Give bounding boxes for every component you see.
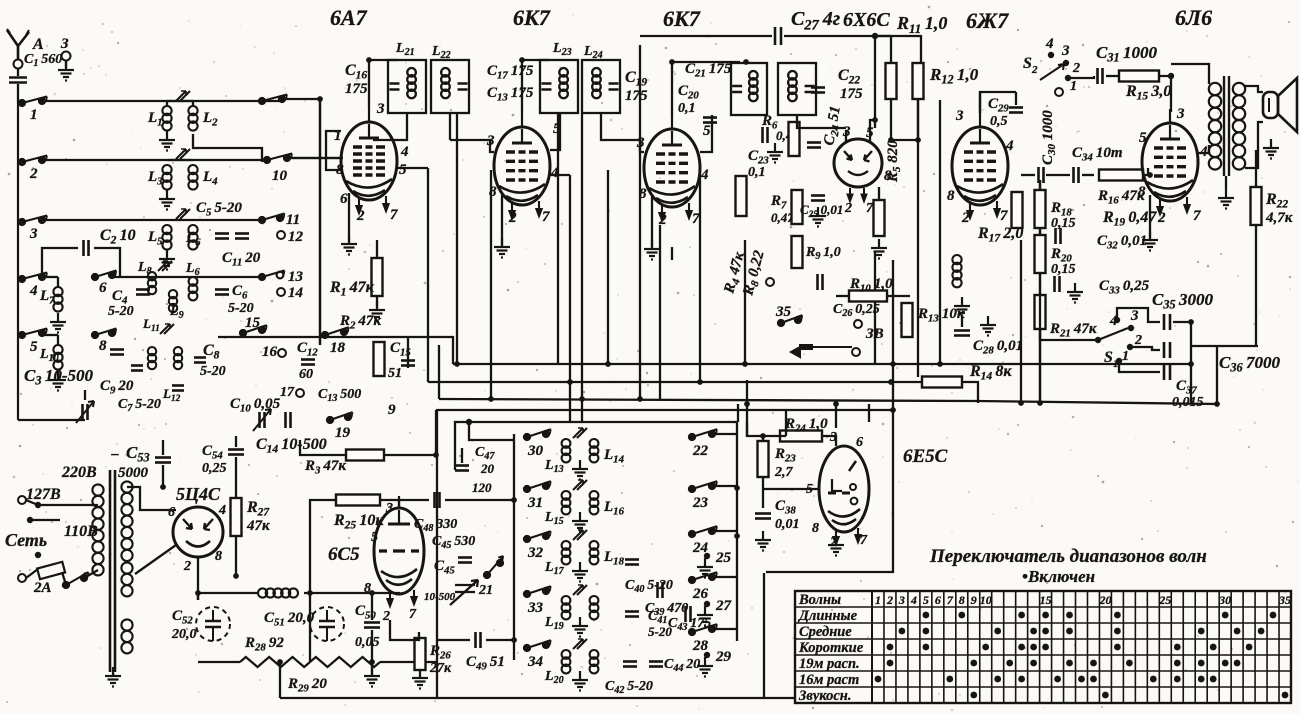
svg-text:8: 8	[489, 184, 497, 200]
wire V8 cathode	[390, 620, 419, 640]
svg-text:R3 47к: R3 47к	[304, 458, 346, 476]
wire IFT1 primary top	[369, 59, 398, 61]
svg-text:13: 13	[288, 269, 304, 285]
wire IFT3 primary top	[672, 61, 740, 63]
junction dot 24	[233, 573, 239, 579]
output transformer core line 2	[1228, 76, 1230, 176]
switch contact 24	[689, 526, 717, 537]
wire 6E5C left rail	[746, 404, 748, 436]
svg-text:30: 30	[527, 443, 544, 459]
svg-text:Длинные: Длинные	[797, 608, 858, 624]
wire IFT2 sec to V3 grid	[601, 113, 644, 152]
resistor R5 body	[874, 200, 885, 236]
wire left column	[17, 103, 19, 420]
svg-text:R1 47к: R1 47к	[329, 279, 375, 299]
wire C54 up	[235, 436, 237, 447]
switch contact 33	[524, 586, 551, 597]
capacitor C46 osc	[458, 558, 472, 563]
svg-text:2: 2	[1031, 64, 1038, 76]
wire R22 up	[1255, 150, 1257, 187]
svg-text:16м раст: 16м раст	[799, 672, 859, 688]
coil L15	[562, 491, 571, 514]
wire S2 to C31	[1068, 76, 1094, 78]
svg-text:С34 10т: С34 10т	[1072, 145, 1122, 163]
ground R26	[412, 669, 428, 689]
power transformer core 1	[109, 470, 112, 672]
coil L8	[148, 272, 156, 294]
svg-text:4,7к: 4,7к	[1265, 210, 1293, 226]
svg-text:19: 19	[335, 425, 351, 441]
junction dot 18	[1168, 73, 1174, 79]
svg-text:2: 2	[183, 559, 191, 574]
coil L9	[169, 290, 177, 312]
fuse 2A	[37, 562, 65, 579]
S2 contact 4	[1048, 52, 1054, 58]
svg-text:18: 18	[330, 340, 346, 356]
ground speaker	[1263, 139, 1279, 159]
ground coil row 32	[572, 562, 588, 582]
svg-text:6А7: 6А7	[330, 5, 368, 30]
capacitor C54	[228, 450, 244, 455]
coil L12	[174, 347, 182, 369]
core mark L5L6	[176, 209, 190, 219]
svg-text:5: 5	[1139, 130, 1147, 146]
wire bus screen	[428, 381, 891, 383]
ground under contact 25	[697, 558, 713, 578]
resistor R14 body	[922, 377, 962, 388]
wire R18 R20	[1039, 228, 1041, 235]
wire C29 stem	[1015, 92, 1017, 105]
electrolytic C52	[196, 607, 230, 641]
wire R3 to C54	[384, 425, 436, 455]
coil L6b	[189, 277, 198, 300]
wire R18 chain	[1039, 180, 1041, 190]
wire contact 28 to rail	[712, 628, 737, 630]
filter choke	[258, 588, 298, 597]
oscillator block frame	[455, 422, 737, 448]
svg-text:8: 8	[947, 188, 955, 204]
switch contact 18	[322, 327, 349, 338]
junction dot 31	[890, 361, 896, 367]
svg-text:9: 9	[971, 593, 977, 607]
junction dot 33	[915, 137, 921, 143]
svg-text:6: 6	[168, 505, 175, 520]
wire C28 stem	[961, 316, 963, 327]
svg-text:6: 6	[99, 280, 107, 296]
svg-text:5: 5	[923, 593, 929, 607]
wire V1 cathode gnd	[348, 193, 350, 242]
power transformer rectifier heater winding	[121, 562, 132, 596]
svg-text:8: 8	[99, 338, 107, 354]
wire R20 down	[1039, 273, 1041, 404]
capacitor C37	[1164, 364, 1170, 380]
wire R23 top	[763, 436, 786, 441]
output transformer primary	[1209, 83, 1221, 170]
svg-text:С1 560: С1 560	[24, 52, 62, 69]
junction dot 13	[872, 117, 878, 123]
switch contact 1	[19, 97, 47, 107]
wire IFT1 sec down	[449, 113, 451, 140]
switch contact 23	[689, 481, 717, 492]
core mark row 33	[573, 585, 587, 595]
svg-text:11: 11	[286, 212, 300, 228]
junction dot 8	[888, 379, 894, 385]
wire mains bottom	[26, 569, 38, 578]
resistor R15 body	[1119, 71, 1159, 82]
wire drop v2	[490, 170, 492, 399]
capacitor C6	[215, 290, 229, 295]
svg-text:Переключатель диапазонов волн: Переключатель диапазонов волн	[929, 546, 1207, 567]
switch contact 10	[264, 154, 292, 164]
wire bus left corner D	[435, 410, 437, 425]
svg-text:51: 51	[388, 366, 402, 381]
svg-text:16: 16	[262, 344, 278, 360]
IF transformer can 1 secondary	[431, 60, 469, 113]
capacitor C2	[84, 240, 89, 256]
frame node	[466, 419, 472, 425]
svg-text:25: 25	[715, 550, 732, 566]
ground under L3	[159, 190, 175, 210]
svg-text:27к: 27к	[429, 661, 452, 676]
contact 14	[277, 288, 285, 296]
svg-text:26: 26	[692, 586, 709, 602]
S2 contact 1	[1055, 88, 1063, 96]
tube 6C5 V8	[374, 496, 424, 594]
svg-text:З: З	[60, 36, 69, 52]
svg-text:5-20: 5-20	[108, 304, 134, 319]
capacitor C23	[763, 127, 768, 143]
svg-text:С7 5-20: С7 5-20	[118, 397, 161, 414]
junction dot 39	[833, 401, 839, 407]
mains tap dot 1	[35, 502, 41, 508]
electrolytic C51	[310, 607, 344, 641]
svg-text:4: 4	[218, 503, 226, 518]
coil L17	[562, 541, 571, 564]
svg-text:0,25: 0,25	[202, 461, 227, 476]
wire contact 22 to rail	[712, 433, 737, 435]
switch S2 arm	[1040, 64, 1064, 80]
svg-text:R24 1,0: R24 1,0	[784, 416, 828, 434]
wire drop v10 upper	[874, 36, 876, 128]
svg-text:0,015: 0,015	[1172, 395, 1204, 410]
ground under R5	[871, 239, 887, 259]
svg-text:С40 5-20: С40 5-20	[625, 578, 673, 595]
svg-text:R12 1,0: R12 1,0	[929, 65, 979, 87]
switch contact 6	[92, 271, 116, 281]
svg-text:С31 1000: С31 1000	[1096, 43, 1157, 65]
svg-text:27: 27	[715, 598, 732, 614]
svg-text:R11 1,0: R11 1,0	[896, 13, 947, 36]
power transformer core 2	[114, 470, 117, 672]
core mark row 30	[573, 428, 587, 438]
wire mid drop x672	[671, 247, 673, 260]
svg-text:34: 34	[527, 654, 544, 670]
wire V4 left pin	[845, 130, 847, 142]
svg-text:5-20: 5-20	[228, 301, 254, 316]
wire transformer core gnd	[1225, 176, 1227, 189]
wire IFT3 sec to diode	[797, 115, 846, 128]
svg-text:9: 9	[388, 402, 396, 418]
capacitor C41	[625, 612, 639, 617]
variable capacitor C3	[83, 404, 88, 420]
wire C30 to C34	[1046, 174, 1070, 176]
svg-text:С9 20: С9 20	[100, 378, 134, 396]
wire C49 right	[486, 639, 514, 641]
switch contact 13	[259, 271, 285, 281]
switch contact 34	[524, 640, 551, 651]
svg-text:С33 0,25: С33 0,25	[1099, 278, 1150, 296]
wire R1 bottom	[376, 296, 378, 308]
tube V4 pin arrows	[848, 188, 867, 201]
svg-text:С51 20,0: С51 20,0	[264, 610, 315, 628]
wire drop v10 lower	[874, 252, 876, 364]
svg-text:4: 4	[910, 593, 917, 607]
svg-text:31: 31	[527, 495, 543, 511]
svg-text:С2 10: С2 10	[100, 227, 136, 247]
mains selector	[63, 572, 89, 588]
junction dot 32	[1188, 361, 1194, 367]
ground under L5	[159, 250, 175, 270]
wire V4 right pin	[869, 130, 871, 142]
capacitor C33	[1055, 276, 1060, 292]
capacitor C25	[811, 196, 825, 201]
capacitor C15	[401, 361, 415, 366]
svg-text:10: 10	[980, 593, 992, 607]
power transformer HV winding	[121, 481, 132, 561]
switch contact 11	[259, 214, 285, 224]
ground C23	[767, 143, 783, 163]
svg-text:3: 3	[1130, 308, 1139, 324]
capacitor C24	[807, 143, 821, 148]
ground C33	[1067, 283, 1083, 303]
wire V6 cathode gnd	[1149, 195, 1151, 238]
capacitor C49	[476, 632, 481, 648]
wire V3 plate up	[671, 62, 673, 115]
wire 4 to L7	[42, 276, 58, 278]
wire 6E5C frame	[747, 422, 763, 436]
svg-text:0,1: 0,1	[678, 101, 696, 116]
resistor R23 body	[758, 441, 769, 477]
svg-text:5-20: 5-20	[200, 364, 226, 379]
svg-text:10: 10	[272, 168, 288, 184]
capacitor C27	[775, 27, 781, 45]
wire drop v13	[939, 100, 941, 364]
wire S1 c2	[1130, 347, 1160, 350]
capacitor C12	[301, 360, 315, 365]
junction dot 38	[744, 401, 750, 407]
ground under R1	[369, 301, 385, 321]
wire V2 plate up	[521, 60, 523, 113]
svg-text:6: 6	[935, 593, 941, 607]
capacitor C38	[755, 514, 771, 519]
ground coil row 33	[572, 617, 588, 637]
wire C49 row	[436, 639, 470, 641]
ground V9	[828, 536, 844, 556]
wire drop v7	[639, 45, 641, 399]
coil L6	[188, 225, 197, 250]
switch contact 2	[19, 156, 47, 166]
ground coil row 34	[572, 671, 588, 691]
capacitor C28	[954, 331, 970, 336]
contact 21	[484, 556, 503, 578]
wire left col to C3	[18, 419, 85, 421]
capacitor C48	[435, 492, 440, 508]
magic eye block frame	[763, 573, 765, 698]
coil L5	[162, 225, 171, 250]
capacitor C26a	[818, 274, 823, 290]
wire drop v4	[569, 175, 571, 422]
wire antenna to C1	[17, 68, 19, 76]
svg-text:35: 35	[775, 304, 792, 320]
junction dot 15	[366, 57, 372, 63]
ground under V6	[1142, 231, 1158, 251]
wire C34 to R16	[1082, 174, 1094, 176]
wire top rail right	[784, 35, 875, 37]
svg-text:С3 10-500: С3 10-500	[24, 366, 94, 388]
contact 16	[278, 349, 286, 357]
wire bus left corner C	[438, 345, 440, 399]
wire osc switch rail	[513, 434, 515, 660]
S1 contact 2	[1127, 344, 1133, 350]
capacitor C9	[110, 350, 124, 355]
wire contact1 to L1	[42, 100, 282, 102]
junction dot 0	[454, 361, 460, 367]
svg-text:20: 20	[1098, 593, 1111, 607]
wire R25 to V8 plate	[380, 500, 399, 507]
svg-text:8: 8	[215, 549, 222, 564]
switch contact 35	[778, 315, 802, 326]
wire R28 left	[198, 661, 240, 663]
core mark L8L9	[158, 261, 172, 271]
tube 6L6 V6	[1142, 109, 1198, 201]
wire frame left drop	[454, 448, 456, 470]
junction dot 10	[579, 396, 585, 402]
resistor R27 body	[231, 498, 242, 536]
output transformer core line 1	[1223, 76, 1225, 176]
resistor R13 body	[902, 303, 913, 337]
coil L7	[53, 287, 62, 312]
svg-text:3: 3	[376, 101, 385, 117]
svg-text:R5 820: R5 820	[885, 140, 903, 183]
IF transformer can 2 primary	[540, 60, 578, 113]
wire contact2 to L3	[42, 159, 267, 161]
resistor R24 body	[780, 431, 822, 442]
wire V7 cathode down	[197, 557, 199, 600]
svg-text:0,01: 0,01	[775, 517, 800, 532]
svg-text:2: 2	[356, 208, 365, 224]
svg-text:15: 15	[1040, 593, 1052, 607]
wire row4	[112, 276, 262, 278]
wire HV top to V7	[127, 487, 176, 510]
svg-text:S: S	[1023, 55, 1032, 72]
switch contact 22	[689, 429, 717, 440]
wire bus AVC up right	[1216, 346, 1218, 404]
antenna terminal	[14, 60, 23, 69]
svg-text:6: 6	[856, 435, 863, 450]
coil L10	[53, 345, 62, 370]
wire osc top	[469, 422, 514, 440]
junction dot 6	[567, 379, 573, 385]
wire 6E5C top	[835, 404, 837, 428]
wire L2 top	[192, 101, 194, 106]
wire row1 to bus	[282, 99, 320, 345]
svg-text:Звукосн.: Звукосн.	[798, 688, 851, 704]
wire mains top	[26, 500, 38, 505]
antenna A	[7, 29, 29, 60]
svg-text:7: 7	[1193, 208, 1201, 224]
svg-text:30: 30	[1218, 593, 1231, 607]
wire C31 to R15	[1106, 75, 1119, 77]
ground transformer mid	[1218, 189, 1234, 209]
wire block top right	[737, 404, 739, 422]
svg-text:22: 22	[692, 443, 709, 459]
S1 contact 3	[1128, 325, 1134, 331]
wire R11 tie	[875, 35, 891, 37]
svg-text:175: 175	[840, 86, 863, 102]
switch contact 4	[19, 273, 47, 283]
wire R14 right lead	[962, 382, 978, 403]
coil L22	[590, 650, 599, 673]
svg-text:0,15: 0,15	[1051, 262, 1076, 277]
coil L4	[188, 165, 197, 190]
wire C53 down	[162, 465, 164, 487]
svg-text:С10 0,05: С10 0,05	[230, 396, 281, 414]
oscillator block right rail	[736, 432, 738, 641]
svg-text:20,0: 20,0	[171, 627, 197, 642]
switch contact 29	[704, 652, 710, 658]
svg-text:С17 175: С17 175	[487, 63, 534, 81]
wire left col join	[18, 102, 22, 104]
wire ground stem	[65, 60, 67, 68]
svg-text:127В: 127В	[26, 486, 61, 503]
svg-text:4: 4	[550, 165, 559, 181]
svg-text:7: 7	[390, 207, 398, 223]
wire V2 cathode gnd	[501, 195, 503, 245]
IF transformer can 3 secondary	[778, 63, 816, 115]
wire R5 up	[878, 187, 880, 200]
junction dot 30	[734, 533, 740, 539]
wire fuse to sel	[62, 572, 66, 585]
resistor R26 body	[415, 638, 426, 670]
wire S1 c1	[1119, 361, 1160, 372]
switch contact 26	[689, 572, 717, 583]
capacitor C40	[625, 560, 639, 565]
resistor R17 body	[1012, 192, 1023, 228]
svg-text:10-500: 10-500	[424, 591, 456, 603]
ground under L10	[50, 371, 66, 391]
svg-text:С21 175: С21 175	[685, 61, 732, 79]
wire C48 row	[399, 499, 429, 501]
wire L7 top	[57, 277, 59, 287]
capacitor C47	[455, 466, 469, 471]
junction dot 23	[307, 590, 313, 596]
junction dot 35	[369, 659, 375, 665]
svg-text:2А: 2А	[33, 580, 52, 596]
wire V6 plate to transformer	[1197, 145, 1209, 153]
svg-text:3: 3	[955, 108, 964, 124]
junction dot 11	[637, 396, 643, 402]
svg-text:С14 10-500: С14 10-500	[256, 436, 327, 456]
resistor R11 body	[886, 63, 897, 99]
svg-text:12: 12	[288, 229, 304, 245]
svg-text:2: 2	[382, 609, 390, 624]
mains terminal top	[18, 496, 26, 504]
svg-text:0,1: 0,1	[748, 165, 766, 180]
phono pickup symbol	[791, 345, 852, 357]
wire R3 left	[300, 440, 346, 455]
wire L2 bottom	[193, 134, 262, 162]
ground under V3	[644, 240, 660, 260]
